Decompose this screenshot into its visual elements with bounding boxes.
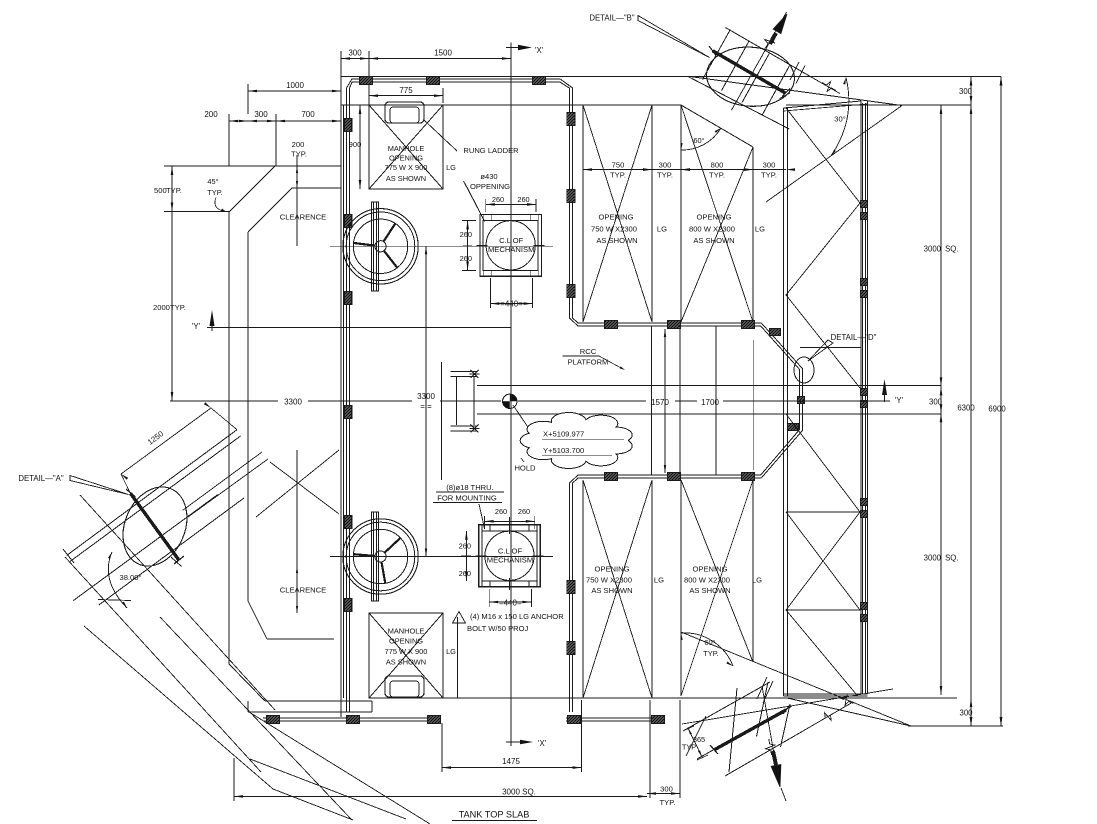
svg-text:CLEARENCE: CLEARENCE (280, 586, 326, 595)
svg-text:MANHOLE: MANHOLE (388, 627, 425, 636)
handwheel valve 1 (343, 209, 418, 284)
platform vertical x716 (715, 326, 717, 475)
svg-text:'Y': 'Y' (895, 396, 904, 405)
svg-text:260: 260 (517, 195, 529, 204)
svg-text:800 W X2300: 800 W X2300 (689, 225, 735, 234)
X axis bottom marker (510, 735, 512, 746)
bottom railing centre segment (566, 717, 665, 719)
right rect X mate lower (786, 512, 860, 610)
30 deg dimension line (766, 106, 902, 203)
platform vertical x754 (753, 340, 755, 470)
detail B ladder rail 1 (725, 28, 810, 77)
svg-text:38.00°: 38.00° (119, 573, 141, 582)
svg-text:260: 260 (492, 195, 504, 204)
svg-text:OPENING: OPENING (598, 213, 633, 222)
chute band outer corner lines (183, 452, 262, 510)
svg-text:300: 300 (929, 398, 943, 407)
dim 3000 SQ bottom (234, 795, 647, 797)
right rect top edge (784, 101, 862, 108)
bottom chute upper rail (683, 682, 770, 731)
svg-text:TYP.: TYP. (703, 649, 718, 658)
right rect right edge (860, 101, 862, 694)
svg-text:RCC: RCC (580, 347, 597, 356)
railing posts top edge (360, 77, 373, 85)
bay 750 bottom rect (582, 480, 584, 698)
svg-text:'X': 'X' (538, 739, 547, 748)
right rect zigzag brace 6 (786, 610, 856, 694)
svg-text:'Y': 'Y' (192, 322, 201, 331)
svg-text:=440=: =440= (500, 300, 523, 309)
svg-text:775: 775 (399, 86, 413, 95)
railing posts platform top rail (605, 321, 618, 329)
right rect zigzag brace 3 (786, 295, 860, 388)
svg-text:750 W X2300: 750 W X2300 (591, 225, 637, 234)
svg-text:TYP.: TYP. (207, 188, 222, 197)
svg-text:775 W X 900: 775 W X 900 (385, 163, 428, 172)
dim =440= below box1 (490, 303, 532, 305)
svg-text:X+5109.977: X+5109.977 (543, 430, 584, 439)
detail B ladder rail 2 (688, 77, 789, 130)
svg-text:LG: LG (755, 225, 765, 234)
svg-text:TYP.: TYP. (170, 303, 186, 312)
svg-text:500: 500 (154, 186, 167, 195)
svg-text:OPENING: OPENING (696, 213, 731, 222)
chute rail lower2 (99, 498, 244, 605)
railing posts platform corner diagonals (770, 329, 781, 336)
rung ladder notch bottom (385, 676, 424, 697)
rung ladder notch top (385, 102, 424, 123)
svg-text:AS SHOWN: AS SHOWN (693, 236, 734, 245)
svg-text:6900: 6900 (988, 405, 1006, 414)
svg-text:200: 200 (292, 140, 305, 149)
dim 1250 diagonal (121, 408, 211, 474)
bottom arrow shaft (762, 686, 776, 765)
left wing inner vertical (247, 232, 249, 601)
svg-text:300: 300 (348, 49, 362, 58)
bottom-right chamfer edge (787, 698, 911, 726)
right rect zigzag brace 4 (786, 414, 860, 512)
revision cloud (520, 413, 632, 469)
svg-text:TYP.: TYP. (166, 186, 182, 195)
Y axis left line (212, 327, 511, 329)
ledge bottom line (248, 711, 372, 713)
svg-text:1500: 1500 (434, 49, 452, 58)
svg-text:750 W X2300: 750 W X2300 (586, 576, 632, 585)
svg-text:Y+5103.700: Y+5103.700 (543, 446, 584, 455)
chute rail lower (73, 495, 217, 601)
svg-text:LG: LG (446, 647, 456, 656)
bottom arrow (771, 765, 781, 788)
bottom chute rungs (686, 716, 706, 756)
dim 260 260 left of box2 (465, 531, 467, 581)
svg-text:AS SHOWN: AS SHOWN (386, 658, 426, 667)
svg-text:2000: 2000 (153, 303, 170, 312)
bottom edge left part (369, 697, 443, 699)
slab inner line y105 (341, 104, 681, 106)
svg-text:OPPENING: OPPENING (470, 182, 510, 191)
30 deg arc (831, 78, 849, 157)
svg-text:MECHANISM: MECHANISM (487, 556, 533, 565)
X axis top marker (510, 43, 512, 53)
handwheel valve 2 (343, 519, 418, 594)
svg-text:LG: LG (446, 163, 456, 172)
extension line x441 (441, 362, 443, 480)
extension line x457 (457, 617, 459, 698)
svg-text:260: 260 (459, 542, 471, 551)
anchor star bottom (471, 424, 479, 432)
detail B axis arrow shaft (731, 12, 786, 110)
svg-text:LG: LG (657, 225, 667, 234)
svg-text:MANHOLE: MANHOLE (388, 144, 425, 153)
centreline wheel1-mechbox1 (330, 245, 553, 247)
platform vertical x680 (679, 326, 681, 475)
bottom chute rail extension (803, 702, 853, 731)
brace upper (80, 495, 275, 710)
left wing lower chamfer inner (248, 601, 267, 639)
right dim 3000 sq upper (940, 105, 943, 114)
brace D1 (84, 626, 273, 789)
platform dim line x665 (664, 329, 666, 473)
svg-text:260: 260 (460, 230, 472, 239)
railing posts platform bottom rail (605, 473, 618, 481)
chute rail upper (67, 430, 237, 556)
anchor bolt label (453, 612, 466, 624)
bay 800 bottom edges (680, 480, 682, 696)
dim 300 1500 top line (341, 58, 511, 60)
brace long from chute end (65, 557, 261, 772)
svg-text:TANK TOP SLAB: TANK TOP SLAB (459, 810, 530, 820)
38 deg arc (108, 552, 127, 608)
railing posts bottom rails (267, 716, 280, 724)
dim 1475 (442, 767, 582, 769)
left wing lower inner line (267, 638, 334, 640)
svg-text:OPENING: OPENING (389, 154, 423, 163)
slab top edge (341, 76, 1001, 78)
svg-text:(4) M16 x 150 LG ANCHOR: (4) M16 x 150 LG ANCHOR (470, 612, 564, 621)
svg-text:AS SHOWN: AS SHOWN (591, 586, 632, 595)
right dim arrows 6300 6900 (970, 105, 973, 114)
mechanism box 2 (479, 525, 540, 587)
detail B thick arrow (773, 14, 787, 34)
svg-text:260: 260 (495, 507, 507, 516)
svg-text:CLEARENCE: CLEARENCE (280, 213, 326, 222)
svg-text:SQ.: SQ. (945, 245, 958, 254)
right rect left edges (783, 108, 785, 696)
svg-text:TYP.: TYP. (610, 171, 626, 180)
slab bottom edge (443, 697, 957, 699)
dim 1000 (248, 90, 341, 92)
bottom extension line y726 (908, 725, 1003, 727)
svg-text:AS SHOWN: AS SHOWN (386, 174, 426, 183)
ledge top line (265, 700, 372, 702)
svg-text:260: 260 (518, 507, 530, 516)
walkway stair end rails (456, 377, 458, 425)
dim 500 TYP (171, 166, 173, 212)
Y axis left marker (210, 310, 215, 326)
right rect division y512 (786, 511, 861, 513)
svg-text:LG: LG (654, 576, 664, 585)
svg-text:AS SHOWN: AS SHOWN (596, 236, 637, 245)
survey marker (503, 394, 517, 408)
svg-text:PLATFORM: PLATFORM (568, 358, 609, 367)
left wing 45deg chamfer inner (248, 188, 292, 232)
svg-text:800: 800 (711, 161, 724, 170)
svg-text:300: 300 (254, 110, 268, 119)
vertical ext wheel centrelines x426 (425, 246, 427, 556)
svg-text:TYP.: TYP. (291, 150, 307, 159)
svg-text:45°: 45° (207, 177, 218, 186)
svg-text:30°: 30° (834, 115, 845, 124)
bottom chute pipe line (697, 706, 792, 759)
dim =440= below box2 (489, 601, 531, 603)
brace D5 (250, 759, 406, 819)
left wing lower chamfer outer (229, 664, 265, 701)
svg-text:1475: 1475 (502, 757, 520, 766)
svg-text:TYP.: TYP. (660, 798, 676, 807)
bottom chute tick pair (757, 677, 767, 699)
manhole X diagonals bottom (369, 613, 443, 698)
railing post inside walkway (797, 397, 805, 404)
detail B ellipse (705, 44, 797, 109)
bay 750 top rect (582, 105, 584, 322)
slab left edge (340, 77, 342, 718)
svg-text:FOR MOUNTING: FOR MOUNTING (437, 494, 497, 503)
dim 365 TYP (688, 728, 702, 757)
right rect division y347 (800, 347, 861, 349)
top-right chamfer edge (690, 77, 902, 106)
bay 750 bottom X brace (583, 480, 652, 698)
railing posts vertical x571 (567, 113, 575, 126)
bay 800 top X brace (681, 105, 753, 322)
svg-text:300: 300 (959, 709, 973, 718)
right rect zigzag brace 5 (786, 512, 860, 610)
38 deg horizontal ref (98, 600, 131, 601)
60 deg arc top (681, 128, 721, 150)
rail1 extension w break (810, 76, 840, 93)
svg-text:TYP: TYP (682, 743, 696, 752)
svg-text:750: 750 (612, 161, 625, 170)
railing posts left edge (344, 119, 352, 132)
svg-text:3000 SQ.: 3000 SQ. (502, 788, 536, 797)
svg-text:HOLD: HOLD (514, 464, 536, 473)
bottom railing left segment (263, 717, 441, 719)
brace tri lines to ellipse (132, 556, 179, 600)
svg-text:TYP.: TYP. (709, 171, 725, 180)
walkway stair end cap top (451, 370, 478, 372)
bottom chute shallow line (682, 689, 893, 724)
rail tick pair (790, 62, 799, 80)
detail B ladder rungs (703, 31, 730, 80)
manhole X diagonals top (369, 105, 443, 189)
bay 800 top edges (680, 105, 682, 322)
right vertical railing (865, 103, 867, 694)
railing posts right rail (860, 201, 868, 208)
right rect division y610 (786, 609, 861, 611)
bottom chute thick bar (714, 710, 786, 750)
svg-text:3000: 3000 (924, 554, 942, 563)
ledge left small vertical (247, 701, 249, 712)
svg-text:LG: LG (752, 576, 762, 585)
svg-text:'X': 'X' (535, 46, 544, 55)
dim 775 (369, 95, 443, 97)
detail D balloon (794, 357, 814, 383)
bay 800 bottom X brace (681, 480, 753, 662)
svg-text:260: 260 (459, 569, 471, 578)
walkway line y386 (477, 385, 941, 387)
platform vertical x651 (651, 326, 653, 475)
anchor star top (471, 370, 479, 378)
right dim arrows 300 top (970, 77, 973, 86)
svg-text:3300: 3300 (284, 398, 302, 407)
X axis vertical centreline (510, 53, 512, 738)
svg-text:(8)ø18 THRU.: (8)ø18 THRU. (446, 483, 494, 492)
svg-text:DETAIL—"B": DETAIL—"B" (589, 14, 634, 23)
60 deg arc bottom (681, 633, 733, 666)
right dim 3000 sq lower (940, 413, 943, 422)
manhole opening rect bottom (369, 613, 443, 698)
railing left+top run (347, 79, 803, 712)
bottom chute long line L1 (681, 632, 911, 726)
dim 300 TYP bottom (647, 793, 680, 795)
svg-text:300: 300 (763, 161, 776, 170)
brace D2 (160, 617, 351, 819)
horizontal centreline y401 (170, 400, 278, 402)
svg-text:900: 900 (349, 140, 362, 149)
detail A ellipse (111, 477, 198, 576)
svg-text:1700: 1700 (701, 398, 719, 407)
svg-text:DETAIL—"D": DETAIL—"D" (831, 333, 877, 342)
svg-text:OPENING: OPENING (692, 565, 727, 574)
dim 2000 TYP (171, 212, 173, 402)
svg-text:1000: 1000 (286, 81, 304, 90)
walkway stair end cap bottom (451, 425, 478, 427)
walkway line y413 (477, 413, 941, 415)
svg-text:260: 260 (460, 254, 472, 263)
brace X near slab corner (256, 450, 339, 517)
dim 900 vertical (359, 105, 361, 189)
svg-text:C.L OF: C.L OF (498, 547, 523, 556)
detail B thick gate bar (713, 51, 786, 94)
mechanism box 1 (480, 214, 541, 276)
centreline wheel2-mechbox2 (330, 556, 553, 558)
svg-text:DETAIL—"A": DETAIL—"A" (18, 474, 63, 483)
brace D4 (249, 712, 430, 824)
clearence dim arrows bottom (296, 560, 298, 613)
svg-text:TYP.: TYP. (657, 171, 673, 180)
bottom chute lower rail (725, 731, 803, 776)
right dim verticals (940, 105, 942, 695)
svg-text:AS SHOWN: AS SHOWN (689, 586, 730, 595)
svg-text:OPENING: OPENING (594, 565, 629, 574)
svg-text:SQ.: SQ. (945, 554, 958, 563)
right rect outer right edge (867, 101, 869, 694)
svg-text:=440=: =440= (499, 599, 522, 608)
svg-text:60°: 60° (693, 136, 704, 145)
left wing inner top line (292, 187, 341, 189)
svg-text:3000: 3000 (924, 245, 942, 254)
svg-text:300: 300 (959, 87, 973, 96)
svg-text:300: 300 (660, 785, 673, 794)
dim 200 300 700 (229, 120, 341, 122)
detail A leader flag (70, 476, 129, 495)
dim 260 260 left of box1 (467, 220, 469, 270)
manhole opening rect top (369, 105, 443, 189)
dim 260 260 above box2 (485, 520, 535, 522)
right dim 300 mid (940, 386, 943, 395)
svg-text:775 W X 900: 775 W X 900 (385, 647, 428, 656)
svg-text:OPENING: OPENING (389, 637, 423, 646)
dim 260 260 above box1 (486, 203, 536, 205)
chute end cap (63, 549, 74, 563)
chute rail upper2 (70, 436, 241, 562)
svg-text:300: 300 (659, 161, 672, 170)
left wing outer top line (209, 165, 341, 167)
detail A thick gate bar (130, 493, 179, 560)
left wing outer vertical (228, 212, 230, 664)
left wing 45deg chamfer outer (229, 166, 275, 212)
right dim 300 bottom (970, 698, 973, 707)
bay 750 top X brace (583, 105, 652, 322)
svg-text:TYP.: TYP. (761, 171, 777, 180)
right rect zigzag brace 1 (786, 108, 860, 203)
dims 750/300/800/300 TYP (583, 169, 652, 171)
svg-text:BOLT W/50 PROJ: BOLT W/50 PROJ (467, 624, 529, 633)
right rect zigzag brace 2 (786, 203, 860, 295)
svg-text:700: 700 (301, 110, 315, 119)
Y axis right marker (882, 379, 887, 395)
detail B leader flag (638, 16, 710, 58)
bay 800 top chamfer (681, 105, 753, 147)
svg-text:1570: 1570 (651, 398, 669, 407)
svg-text:ø430: ø430 (480, 172, 497, 181)
cloud leader (513, 405, 537, 440)
svg-text:800 W X2300: 800 W X2300 (684, 576, 730, 585)
svg-text:6300: 6300 (957, 404, 975, 413)
right rect bottom edge (784, 693, 868, 695)
svg-text:200: 200 (204, 110, 218, 119)
